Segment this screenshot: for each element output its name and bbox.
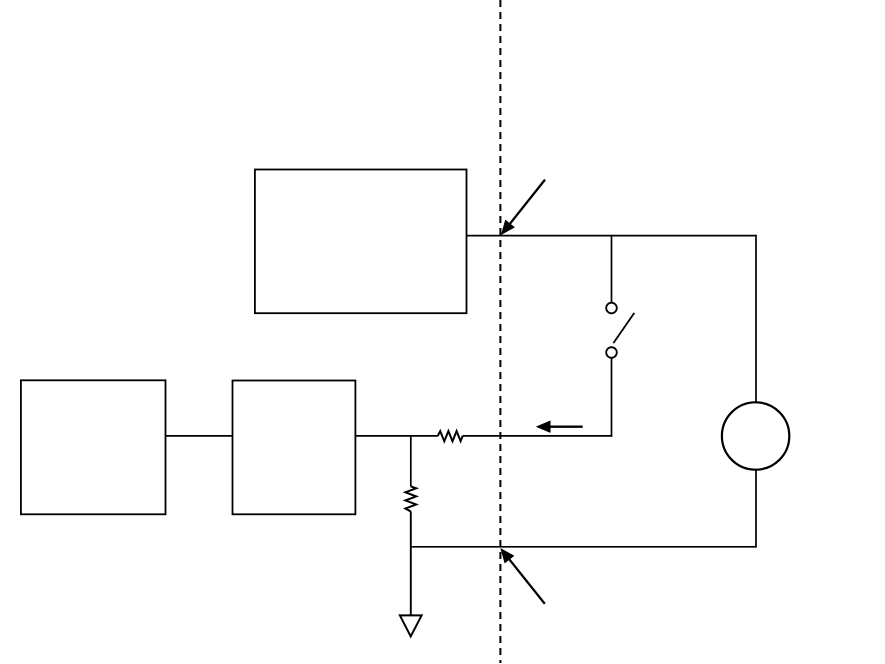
boundary dashed line bbox=[499, 0, 501, 663]
wire between U2 and U3 bbox=[166, 435, 233, 437]
annotation arrow 3 (to bottom wire at boundary) bbox=[501, 549, 545, 604]
wire right vertical lower bbox=[755, 470, 757, 548]
switch S1 lower contact bbox=[606, 347, 617, 358]
ground bbox=[400, 615, 422, 636]
wire below resistor R2 to ground bbox=[410, 512, 412, 616]
switch S1 lever bbox=[613, 313, 634, 343]
resistor R2 (vertical) bbox=[405, 486, 416, 511]
wire switch top vertical bbox=[611, 235, 613, 303]
block U3 (middle box) bbox=[233, 381, 356, 515]
motor M1 (circle) bbox=[722, 402, 789, 469]
annotation arrow 1 (to top wire at boundary) bbox=[501, 180, 545, 235]
block U2 (left box) bbox=[21, 380, 166, 514]
wire resistor R1 to switch bbox=[463, 435, 613, 437]
node A junction vertical wire bbox=[410, 436, 412, 487]
annotation arrow 2 (current direction, pointing left) bbox=[536, 421, 582, 433]
resistor R1 (horizontal) bbox=[438, 431, 463, 441]
wire U3 to node A bbox=[355, 435, 438, 437]
wire top horizontal bbox=[467, 235, 757, 237]
wire right vertical upper bbox=[755, 235, 757, 403]
switch S1 upper contact bbox=[606, 303, 617, 314]
block U1 (top controller box) bbox=[255, 170, 467, 314]
wire bottom horizontal bbox=[411, 546, 757, 548]
wire switch bottom vertical bbox=[611, 358, 613, 437]
